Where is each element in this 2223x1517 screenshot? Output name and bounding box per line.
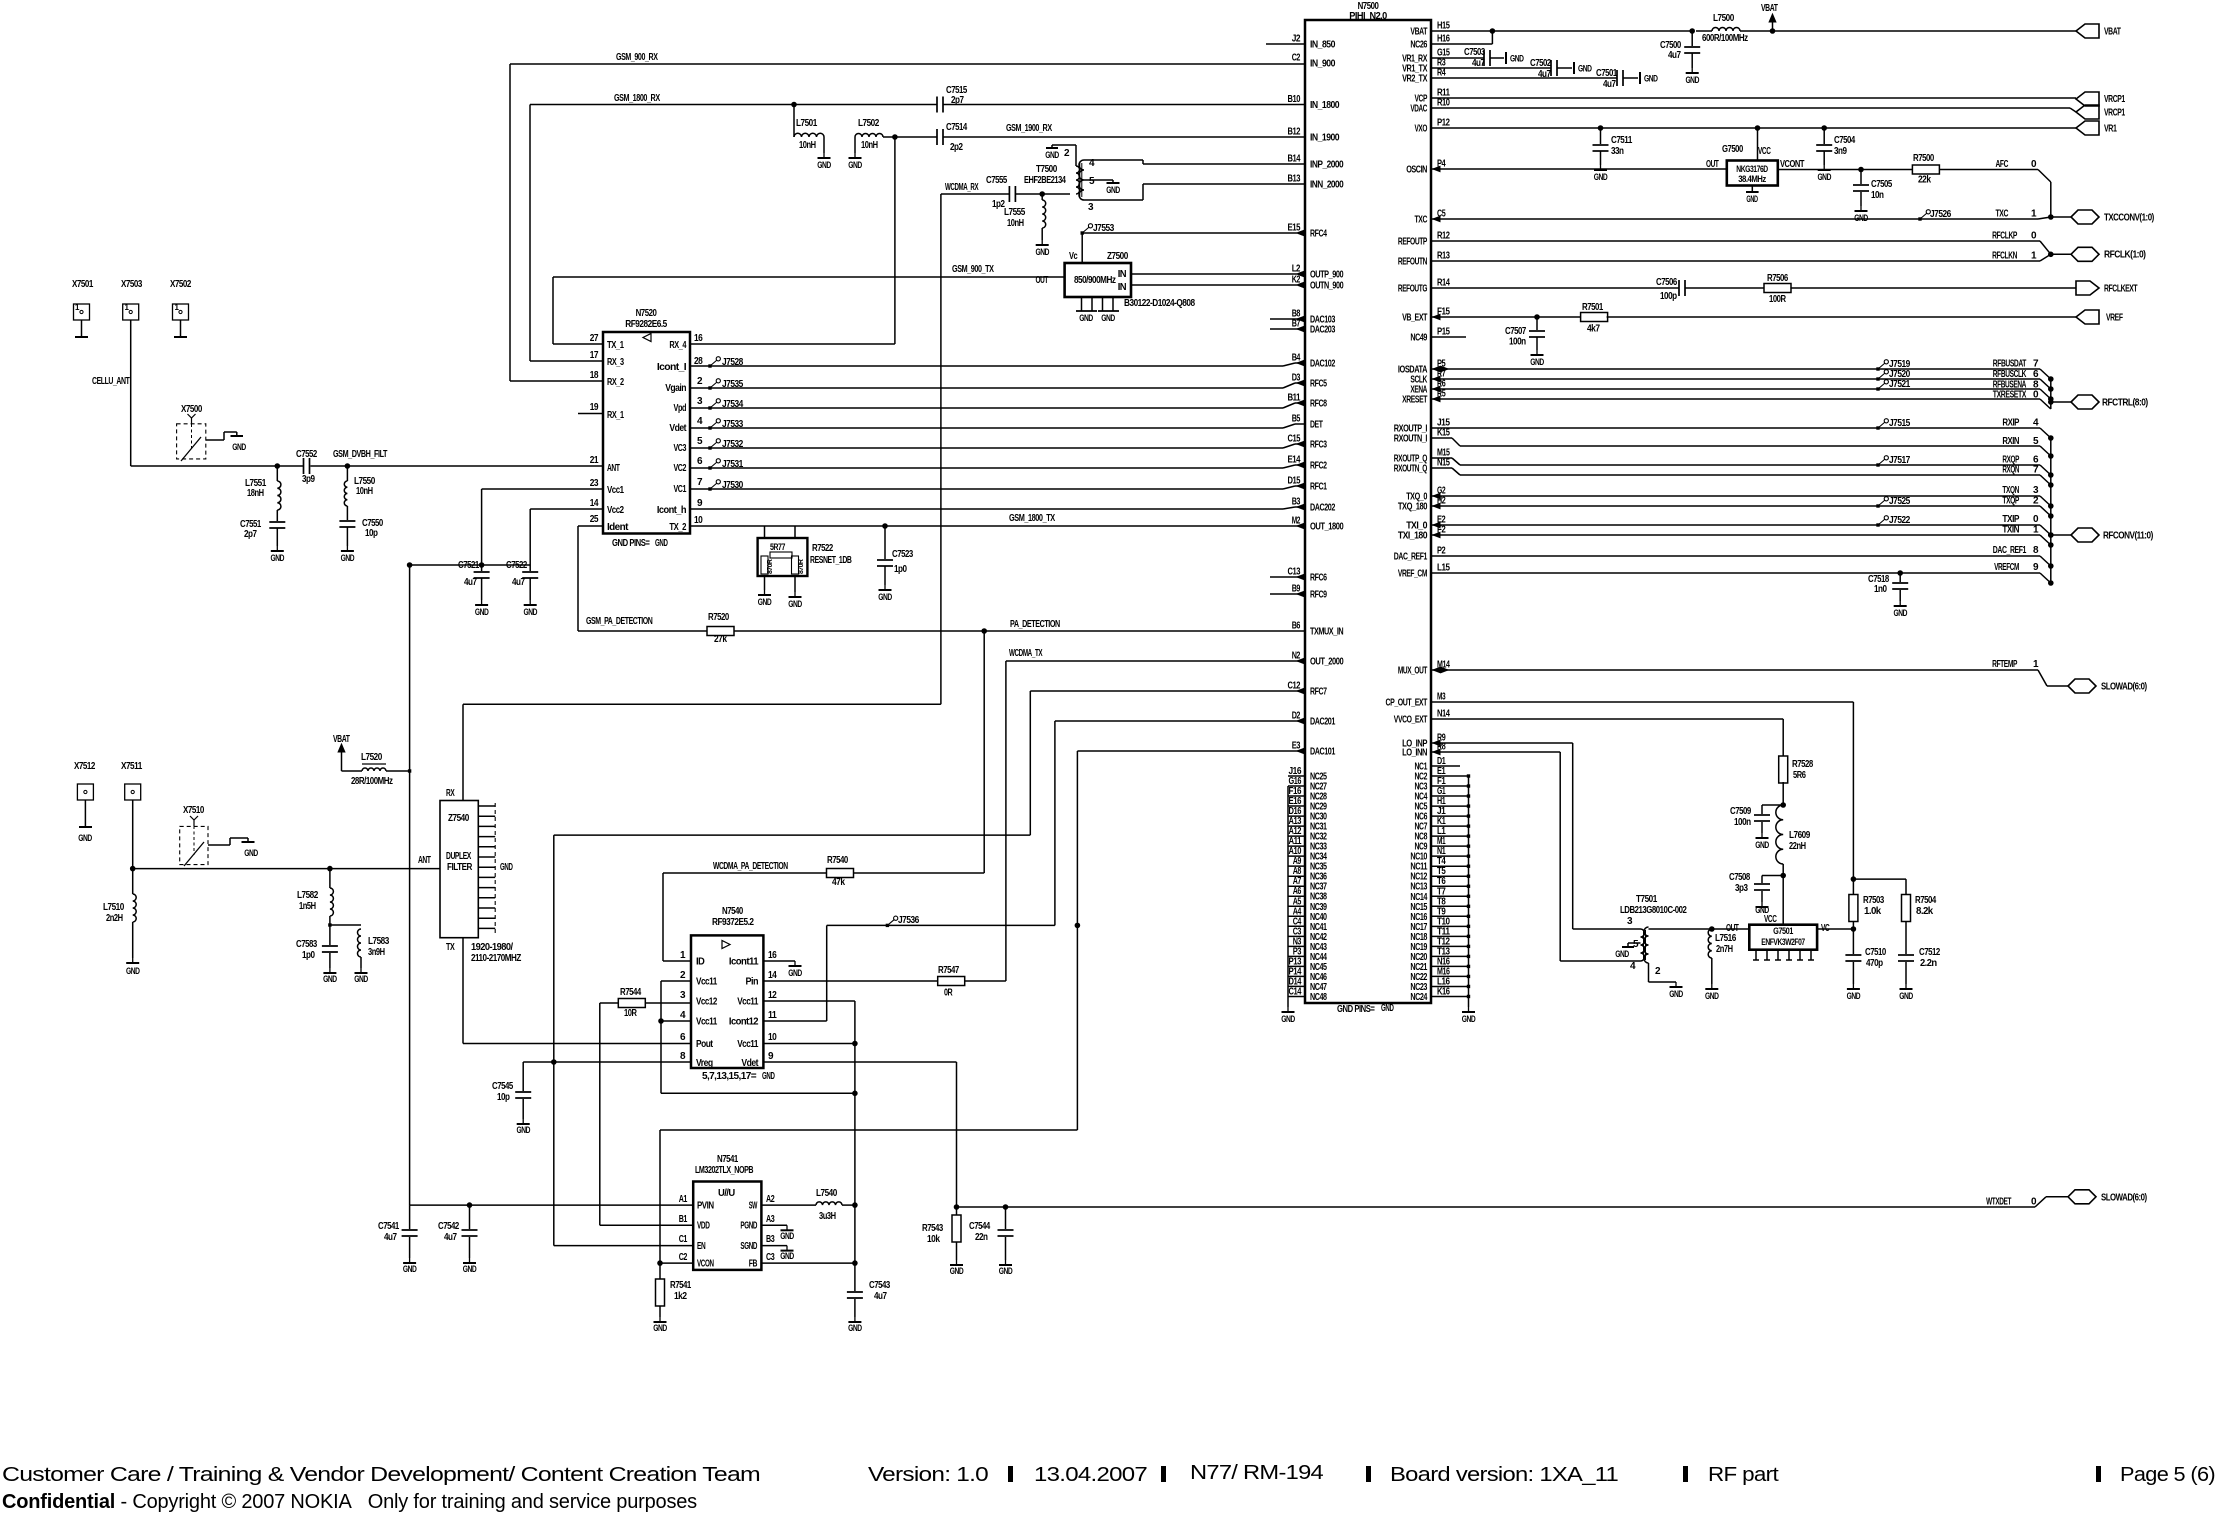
- svg-text:N7541: N7541: [717, 1154, 739, 1165]
- svg-text:11: 11: [768, 1010, 777, 1021]
- svg-text:CP_OUT_EXT: CP_OUT_EXT: [1386, 698, 1428, 709]
- svg-text:N7540: N7540: [722, 906, 744, 917]
- svg-text:RXIP: RXIP: [2002, 418, 2019, 429]
- svg-text:R7544: R7544: [620, 987, 642, 998]
- svg-text:TXQN: TXQN: [2002, 485, 2019, 496]
- svg-text:DET: DET: [1310, 420, 1323, 431]
- svg-text:RFC1: RFC1: [1310, 482, 1327, 493]
- svg-text:Vpd: Vpd: [674, 403, 687, 414]
- wire Vcc11 pin2 branch: [661, 980, 691, 982]
- svg-text:NC24: NC24: [1410, 992, 1427, 1003]
- svg-text:B1: B1: [679, 1214, 688, 1225]
- svg-text:2p7: 2p7: [244, 529, 257, 540]
- junction L7551: [275, 464, 280, 469]
- svg-text:R7522: R7522: [812, 543, 834, 554]
- svg-text:27: 27: [590, 333, 599, 344]
- svg-text:RX_4: RX_4: [669, 340, 686, 351]
- wire VBAT row: [1431, 30, 1492, 32]
- svg-text:H15: H15: [1437, 21, 1450, 32]
- svg-text:L7500: L7500: [1713, 13, 1735, 24]
- svg-text:IN_1800: IN_1800: [1310, 100, 1340, 111]
- svg-text:TXCCONV(1:0): TXCCONV(1:0): [2104, 213, 2154, 224]
- svg-text:GSM_PA_DETECTION: GSM_PA_DETECTION: [586, 616, 653, 627]
- svg-text:GND: GND: [1106, 185, 1120, 195]
- svg-text:1920-1980/: 1920-1980/: [471, 942, 513, 953]
- svg-text:RXQN: RXQN: [2002, 465, 2019, 476]
- svg-text:J2: J2: [1292, 34, 1301, 45]
- ground under C7510: [1852, 984, 1854, 989]
- svg-text:C7545: C7545: [492, 1081, 514, 1092]
- ground under C7583: [329, 968, 331, 973]
- svg-text:PA_DETECTION: PA_DETECTION: [1010, 619, 1060, 630]
- wire Vcc11 pin4 branch: [661, 1020, 691, 1022]
- svg-text:GND: GND: [232, 442, 246, 452]
- svg-text:VCONT: VCONT: [1780, 159, 1804, 170]
- wire GSM_DVBH_FILT to N7520 ANT: [347, 465, 603, 467]
- svg-text:GND: GND: [475, 607, 489, 617]
- svg-text:VC3: VC3: [674, 443, 687, 454]
- wire PVIN rail: [410, 1204, 694, 1206]
- svg-text:GND: GND: [1705, 991, 1719, 1001]
- svg-text:DAC201: DAC201: [1310, 717, 1336, 728]
- svg-text:GND: GND: [788, 599, 802, 609]
- svg-text:VCON: VCON: [697, 1259, 714, 1270]
- svg-text:870R: 870R: [798, 559, 805, 574]
- svg-text:1p0: 1p0: [894, 564, 907, 575]
- svg-text:C7523: C7523: [892, 549, 914, 560]
- wire Icont12 branch: [763, 1020, 826, 1022]
- flag bus TXCCONV(1:0): [2051, 216, 2071, 218]
- wire VREF_CM / VREFCM row: [1431, 572, 2040, 574]
- wire Z7500 IN1 to OUTP_900: [1131, 273, 1297, 275]
- bus RFCTRL vertical: [2050, 379, 2052, 409]
- wire WCDMA_PA_DETECTION: [663, 872, 827, 874]
- svg-text:VRCP1: VRCP1: [2104, 108, 2126, 119]
- wire TXC row with jumper J7526: [1431, 218, 2038, 220]
- svg-text:C7509: C7509: [1730, 806, 1752, 817]
- wire Z7500 IN2 to OUTN_900: [1131, 284, 1297, 286]
- wire Vdet to N7500 DET: [690, 427, 1283, 429]
- svg-text:1n0: 1n0: [1874, 584, 1887, 595]
- wire RFC7 row to N7500: [1030, 690, 1305, 692]
- svg-text:1p0: 1p0: [302, 950, 315, 961]
- wire WCDMA_TX to OUT_2000: [1006, 660, 1305, 662]
- svg-text:P15: P15: [1437, 327, 1450, 338]
- svg-text:RFCTRL(8:0): RFCTRL(8:0): [2102, 398, 2148, 409]
- svg-text:RFC3: RFC3: [1310, 440, 1327, 451]
- svg-text:L7501: L7501: [796, 118, 818, 129]
- svg-text:GND: GND: [653, 1323, 667, 1333]
- svg-text:P12: P12: [1437, 118, 1450, 129]
- svg-text:Vdet: Vdet: [741, 1058, 759, 1069]
- svg-text:J7525: J7525: [1889, 496, 1911, 507]
- junction L7516: [1710, 927, 1715, 932]
- wire VC2 to N7500 RFC2: [690, 467, 1283, 469]
- svg-text:2n7H: 2n7H: [1716, 944, 1733, 955]
- svg-text:GSM_1900_RX: GSM_1900_RX: [1006, 123, 1052, 134]
- wire WCDMA antenna line: [133, 868, 440, 870]
- svg-text:GND: GND: [500, 862, 513, 873]
- svg-text:DAC_REF1: DAC_REF1: [1394, 552, 1428, 563]
- svg-text:1.0k: 1.0k: [1864, 906, 1882, 917]
- svg-text:NC48: NC48: [1310, 992, 1327, 1003]
- svg-text:RFC7: RFC7: [1310, 687, 1327, 698]
- wire SGND to GND: [761, 1245, 787, 1247]
- wire duplexer TX down to Pout: [462, 938, 464, 1044]
- ground under C7543: [854, 1317, 856, 1322]
- svg-text:TX_1: TX_1: [607, 340, 624, 351]
- ground under L7583: [360, 968, 362, 973]
- svg-text:RFC5: RFC5: [1310, 379, 1327, 390]
- ground under C7545: [522, 1119, 524, 1124]
- junction C7523: [883, 524, 888, 529]
- wire N7520 Vcc2 branch: [530, 508, 603, 510]
- svg-text:10R: 10R: [624, 1008, 638, 1019]
- svg-text:VBAT: VBAT: [1410, 27, 1427, 38]
- svg-text:RXIN: RXIN: [2002, 436, 2019, 447]
- svg-text:VREF: VREF: [2106, 313, 2123, 324]
- svg-text:10nH: 10nH: [356, 486, 373, 497]
- svg-text:Z7500: Z7500: [1107, 251, 1129, 262]
- svg-text:L7582: L7582: [297, 890, 319, 901]
- svg-text:GND PINS=: GND PINS=: [1337, 1004, 1375, 1015]
- svg-text:DAC202: DAC202: [1310, 503, 1336, 514]
- wire antenna line to GSM_DVBH filter: [131, 465, 278, 467]
- svg-text:TXI_180: TXI_180: [1398, 531, 1428, 542]
- svg-text:L7609: L7609: [1789, 830, 1811, 841]
- wire PA_DETECTION to N7500 TXMUX_IN: [734, 630, 1305, 632]
- svg-text:C7522: C7522: [506, 560, 528, 571]
- ground under C7507: [1536, 350, 1538, 355]
- svg-text:ENFVK3W2F07: ENFVK3W2F07: [1761, 937, 1805, 948]
- wire VB_EXT / VREF row: [1431, 316, 1582, 318]
- svg-text:C1: C1: [679, 1234, 688, 1245]
- svg-text:100R: 100R: [1769, 294, 1787, 305]
- svg-text:R7504: R7504: [1915, 895, 1937, 906]
- svg-text:GND: GND: [1746, 194, 1758, 204]
- svg-text:10k: 10k: [927, 1234, 940, 1245]
- svg-text:PGND: PGND: [740, 1221, 757, 1232]
- wire REFOUTG row: [1431, 287, 1679, 289]
- svg-text:RX: RX: [446, 788, 455, 799]
- wire Vreg to RFC7 net and EN: [553, 835, 555, 1246]
- svg-text:J7517: J7517: [1889, 455, 1911, 466]
- wire NC26 to VBAT: [1431, 43, 1492, 45]
- jumper J7553: [1081, 231, 1084, 234]
- svg-text:B10: B10: [1288, 94, 1301, 105]
- svg-text:VB_EXT: VB_EXT: [1402, 313, 1427, 324]
- svg-text:25: 25: [590, 514, 599, 525]
- ground under C7508: [1761, 902, 1763, 907]
- svg-text:RFC8: RFC8: [1310, 399, 1327, 410]
- svg-text:X7511: X7511: [121, 761, 143, 772]
- svg-text:C7503: C7503: [1464, 47, 1486, 58]
- wire XRESET row: [1431, 398, 2040, 400]
- svg-text:100p: 100p: [1660, 291, 1677, 302]
- ground at X7500: [236, 432, 238, 436]
- wire MUX_OUT / RFTEMP row: [1431, 669, 2038, 671]
- svg-text:1k2: 1k2: [674, 1291, 687, 1302]
- wire GSM_PA_DETECTION: [578, 630, 707, 632]
- svg-text:A2: A2: [766, 1194, 775, 1205]
- svg-text:LM3202TLX_NOPB: LM3202TLX_NOPB: [695, 1165, 753, 1176]
- svg-text:IN: IN: [1118, 269, 1127, 280]
- svg-text:R7540: R7540: [827, 855, 849, 866]
- wire XENA row with jumper J7521: [1431, 388, 2040, 390]
- svg-text:GND: GND: [1079, 313, 1093, 323]
- svg-text:RFTEMP: RFTEMP: [1992, 659, 2018, 670]
- junction L7550: [345, 464, 350, 469]
- junction L7582: [328, 866, 333, 871]
- ground under C7542: [469, 1258, 471, 1263]
- svg-text:GND: GND: [244, 848, 258, 858]
- svg-text:14: 14: [590, 498, 599, 509]
- svg-text:OUT_1800: OUT_1800: [1310, 522, 1344, 533]
- wire right NC gnd bus: [1468, 776, 1470, 1007]
- svg-text:GND: GND: [1669, 989, 1683, 999]
- svg-text:RF9372E5.2: RF9372E5.2: [712, 917, 754, 928]
- wire G7501 VC node: [1817, 928, 1853, 930]
- svg-text:TXRESETX: TXRESETX: [1993, 390, 2027, 401]
- wire DAC201 row to N7500: [1055, 720, 1305, 722]
- svg-text:RFBUSCLK: RFBUSCLK: [1993, 369, 2027, 380]
- svg-text:OUTN_900: OUTN_900: [1310, 281, 1344, 292]
- oscillator G7501 ENFVK3W2F07: [1749, 925, 1817, 950]
- T7501 pin 1 to G7501 OUT: [1649, 928, 1750, 930]
- junction C7508: [1781, 873, 1786, 878]
- flag VREF: [2076, 310, 2099, 324]
- wire GSM_1800_RX left of C7515: [530, 104, 937, 106]
- ground under L7501: [823, 153, 825, 158]
- flag VR1: [2076, 121, 2099, 135]
- svg-text:Vcc2: Vcc2: [607, 505, 624, 516]
- wire Pin to R7547: [763, 980, 938, 982]
- wire VVCO_EXT to R7528: [1431, 718, 1783, 720]
- svg-text:TXIP: TXIP: [2002, 514, 2019, 525]
- svg-text:GSM_1800_TX: GSM_1800_TX: [1009, 513, 1055, 524]
- wire RFC4 row: [1082, 232, 1297, 234]
- svg-text:GND: GND: [516, 1125, 530, 1135]
- svg-text:Z7540: Z7540: [448, 813, 470, 824]
- svg-text:RFC2: RFC2: [1310, 461, 1327, 472]
- wire WCDMA_RX vertical: [940, 194, 942, 704]
- svg-text:WTXDET: WTXDET: [1986, 1197, 2011, 1208]
- svg-text:TX: TX: [446, 942, 455, 953]
- svg-text:100n: 100n: [1734, 817, 1751, 828]
- svg-text:GND: GND: [999, 1266, 1013, 1276]
- svg-text:R14: R14: [1437, 278, 1450, 289]
- svg-text:GND PINS=: GND PINS=: [612, 538, 650, 549]
- svg-text:22nH: 22nH: [1789, 841, 1806, 852]
- ground under C7541: [409, 1258, 411, 1263]
- svg-text:SLOWAD(6:0): SLOWAD(6:0): [2101, 682, 2147, 693]
- svg-text:PVIN: PVIN: [697, 1201, 714, 1212]
- svg-text:33n: 33n: [1611, 146, 1624, 157]
- wire GSM_900_TX: [553, 276, 1065, 278]
- svg-text:X7503: X7503: [121, 279, 143, 290]
- ground under C7521: [481, 600, 483, 605]
- svg-text:L7510: L7510: [103, 902, 125, 913]
- svg-text:GND: GND: [126, 966, 140, 976]
- svg-text:38.4MHz: 38.4MHz: [1738, 174, 1766, 185]
- svg-text:GND: GND: [1854, 213, 1868, 223]
- svg-text:19: 19: [590, 402, 599, 413]
- svg-text:VC2: VC2: [674, 463, 687, 474]
- svg-text:WCDMA_TX: WCDMA_TX: [1009, 648, 1043, 659]
- svg-text:Vcc1: Vcc1: [607, 485, 624, 496]
- svg-text:L7555: L7555: [1004, 207, 1026, 218]
- VBAT up arrow lower: [341, 747, 343, 771]
- svg-text:GND: GND: [780, 1231, 794, 1241]
- svg-text:B5: B5: [1292, 414, 1301, 425]
- junction WCDMA_PA_DETECTION drop: [982, 629, 987, 634]
- svg-text:2n2H: 2n2H: [106, 913, 123, 924]
- svg-text:VBAT: VBAT: [2104, 27, 2121, 38]
- svg-text:DAC203: DAC203: [1310, 325, 1336, 336]
- net RFCLKN: [1431, 260, 2040, 262]
- svg-text:R13: R13: [1437, 251, 1450, 262]
- svg-text:Vc: Vc: [1069, 251, 1078, 262]
- svg-text:GND: GND: [1281, 1014, 1295, 1024]
- svg-text:TXC: TXC: [1415, 215, 1428, 226]
- svg-text:GND: GND: [1685, 75, 1699, 85]
- svg-text:LDB213G8010C-002: LDB213G8010C-002: [1620, 905, 1687, 916]
- svg-text:C7512: C7512: [1919, 947, 1941, 958]
- wire RFC7 vertical: [1029, 691, 1031, 835]
- ground under L7502: [854, 153, 856, 158]
- wire Icont11 to GND: [763, 960, 795, 962]
- svg-text:470p: 470p: [1866, 958, 1883, 969]
- svg-text:GND: GND: [341, 553, 355, 563]
- wire WCDMA_TX vertical: [1005, 661, 1007, 981]
- ground under L7516: [1711, 984, 1713, 989]
- svg-text:RFCLKEXT: RFCLKEXT: [2104, 284, 2138, 295]
- ground at X7510: [247, 838, 249, 842]
- flag bus SLOWAD(6:0) upper: [2068, 679, 2096, 693]
- svg-text:870R: 870R: [767, 559, 774, 574]
- net WTXDET to SLOWAD: [1006, 1206, 2036, 1208]
- svg-text:R7543: R7543: [922, 1223, 944, 1234]
- svg-text:J7521: J7521: [1889, 379, 1911, 390]
- bus RFCONV vertical: [2050, 438, 2052, 583]
- svg-text:MUX_OUT: MUX_OUT: [1398, 666, 1427, 677]
- wire WCDMA_RX horizontal: [941, 193, 1010, 195]
- svg-text:Icont12: Icont12: [729, 1017, 759, 1028]
- resistor network R7522 RESNET_1DB: [764, 526, 766, 538]
- svg-text:B30122-D1024-Q808: B30122-D1024-Q808: [1124, 298, 1195, 309]
- ground under C7504: [1823, 165, 1825, 170]
- wire X7511 down to antenna line: [132, 800, 134, 869]
- svg-text:GSM_DVBH_FILT: GSM_DVBH_FILT: [333, 449, 387, 460]
- svg-text:RFCONV(11:0): RFCONV(11:0): [2103, 531, 2153, 542]
- svg-text:RFC6: RFC6: [1310, 573, 1327, 584]
- ground under C7544: [1005, 1260, 1007, 1265]
- wire Vdet vertical to WTXDET: [956, 1062, 958, 1207]
- svg-text:1n5H: 1n5H: [299, 901, 316, 912]
- svg-text:10: 10: [694, 515, 703, 526]
- svg-text:RX_2: RX_2: [607, 377, 624, 388]
- svg-text:XRESET: XRESET: [1402, 395, 1427, 406]
- svg-text:B3: B3: [766, 1234, 775, 1245]
- junction C7509: [1781, 803, 1786, 808]
- svg-text:C7505: C7505: [1871, 179, 1893, 190]
- T7501 pin 2 to GND: [1648, 963, 1650, 982]
- svg-text:10p: 10p: [497, 1092, 510, 1103]
- svg-text:RFC4: RFC4: [1310, 229, 1327, 240]
- wire Icont_I to N7500 DAC102: [690, 365, 1283, 367]
- svg-text:100n: 100n: [1509, 337, 1526, 348]
- svg-text:C2: C2: [1292, 53, 1301, 64]
- svg-text:GND: GND: [323, 974, 337, 984]
- svg-text:C7583: C7583: [296, 939, 318, 950]
- wire VXO row: [1431, 127, 2076, 129]
- svg-text:C7542: C7542: [438, 1221, 460, 1232]
- svg-text:DUPLEX: DUPLEX: [446, 851, 472, 862]
- svg-text:EHF2BE2134: EHF2BE2134: [1024, 175, 1066, 186]
- grounds under R7522: [764, 576, 766, 590]
- svg-text:GND: GND: [523, 607, 537, 617]
- svg-text:X7501: X7501: [72, 279, 94, 290]
- svg-text:R7528: R7528: [1792, 759, 1814, 770]
- svg-text:0R: 0R: [944, 988, 953, 999]
- svg-text:GND: GND: [780, 1251, 794, 1261]
- wire N7520 Vcc1 branch: [482, 488, 603, 490]
- svg-text:C7504: C7504: [1834, 135, 1856, 146]
- svg-text:GND: GND: [1462, 1014, 1476, 1024]
- svg-text:10: 10: [768, 1032, 777, 1043]
- svg-text:X7502: X7502: [170, 279, 192, 290]
- wire RXOUTN_Q / RXQN row: [1431, 467, 1452, 469]
- svg-text:Version: 1.0: Version: 1.0: [868, 1464, 989, 1486]
- svg-text:DAC101: DAC101: [1310, 747, 1336, 758]
- wire GSM_900_RX: [510, 63, 1305, 65]
- svg-text:C7506: C7506: [1656, 277, 1678, 288]
- svg-text:12: 12: [768, 990, 777, 1001]
- wire GSM_900_RX vertical to N7520 RX_2: [509, 64, 511, 381]
- svg-text:C7544: C7544: [969, 1221, 991, 1232]
- jumper J7536: [886, 924, 889, 927]
- svg-text:4u7: 4u7: [444, 1232, 457, 1243]
- svg-text:R7500: R7500: [1913, 153, 1935, 164]
- svg-text:22n: 22n: [975, 1232, 988, 1243]
- svg-text:C7521: C7521: [458, 560, 480, 571]
- svg-text:Icont_I: Icont_I: [657, 362, 687, 373]
- wire GSM_1800_TX TX_2 to N7500 OUT_1800: [690, 525, 1305, 527]
- wire IOSDATA row with jumper J7519: [1431, 368, 2040, 370]
- svg-text:13.04.2007: 13.04.2007: [1034, 1464, 1148, 1486]
- ground under C7518: [1899, 601, 1901, 606]
- wire VBAT rail vertical: [409, 565, 411, 771]
- svg-text:C7508: C7508: [1729, 872, 1751, 883]
- wire J7553 to Z7500 Vc: [1081, 233, 1083, 263]
- svg-text:AFC: AFC: [1996, 159, 2009, 170]
- ground under C7522: [529, 600, 531, 605]
- svg-text:GND: GND: [271, 553, 285, 563]
- junction GSM_1900 node: [893, 135, 898, 140]
- svg-text:R7520: R7520: [708, 612, 730, 623]
- flag bus SLOWAD(6:0) lower: [2068, 1190, 2096, 1204]
- svg-text:INP_2000: INP_2000: [1310, 160, 1344, 171]
- svg-text:VCC: VCC: [1764, 914, 1777, 925]
- svg-text:X7500: X7500: [181, 404, 203, 415]
- svg-text:A3: A3: [766, 1214, 775, 1225]
- svg-text:GSM_1800_RX: GSM_1800_RX: [614, 93, 660, 104]
- svg-text:Pin: Pin: [746, 977, 759, 988]
- svg-text:OSCIN: OSCIN: [1406, 165, 1427, 176]
- svg-text:VREF_CM: VREF_CM: [1398, 569, 1427, 580]
- svg-text:Vgain: Vgain: [665, 383, 686, 394]
- svg-text:RX_3: RX_3: [607, 357, 624, 368]
